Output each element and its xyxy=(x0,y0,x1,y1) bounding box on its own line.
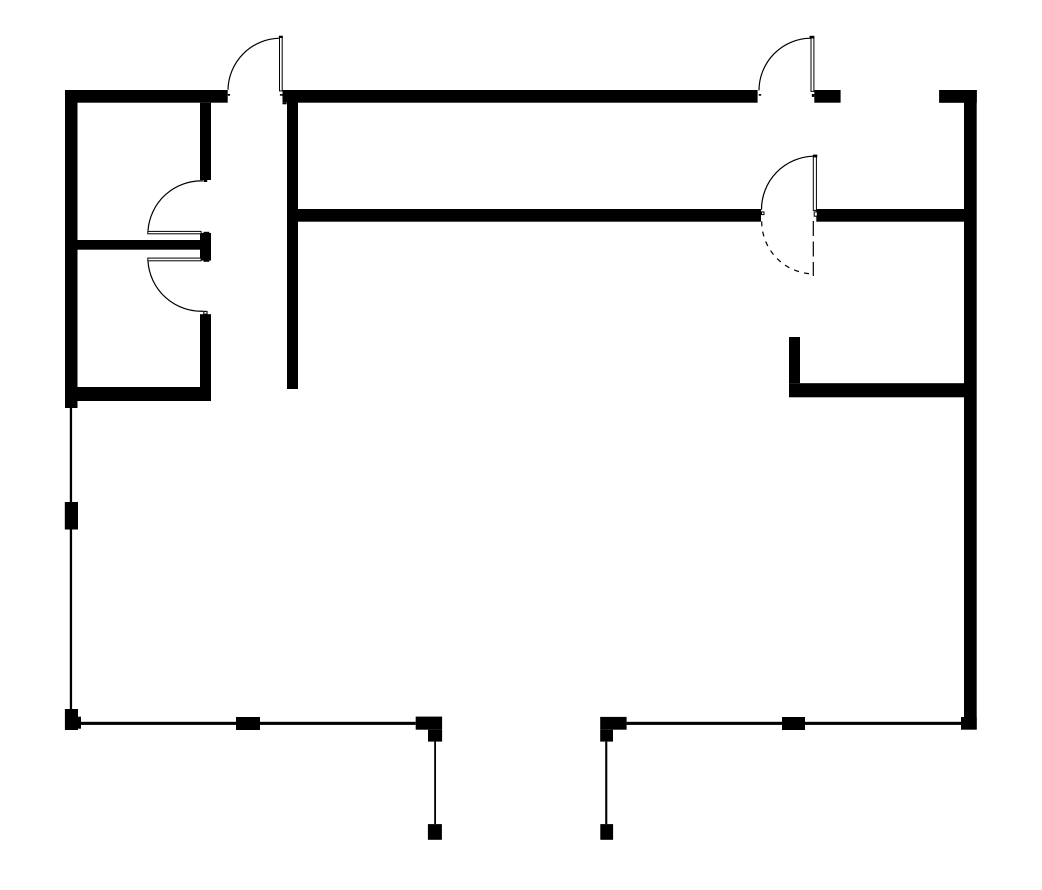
cap bump top xyxy=(204,232,210,233)
jamb tick below interior wall xyxy=(204,180,207,182)
door D2 hinge cap xyxy=(810,36,815,39)
thin wall descending right xyxy=(605,742,607,825)
column bottom mid-right xyxy=(782,717,805,730)
door D4 arc (lower left-block door) xyxy=(148,261,203,311)
wall top-left horizontal xyxy=(65,90,228,103)
thin wall bottom right segment xyxy=(627,722,961,725)
jamb step below wall right of D1 xyxy=(283,103,287,105)
wall interior vertical upper (left block) xyxy=(200,103,211,180)
door D5 solid arc xyxy=(761,156,813,210)
wall main vertical center xyxy=(287,90,298,389)
column bottom square left xyxy=(428,824,442,840)
door D5 jamb tick right xyxy=(814,212,817,216)
door D3 arc (upper left-block door) xyxy=(148,181,203,231)
wall middle horizontal (left block) xyxy=(65,240,200,250)
door D1 jamb tick right xyxy=(280,94,283,96)
door D5 dashed leaf xyxy=(812,221,814,276)
wall L stub vertical (right area) xyxy=(789,337,800,383)
door D4 stop tick xyxy=(204,311,207,314)
thin wall bottom left segment xyxy=(78,722,416,725)
wall top main horizontal xyxy=(283,90,758,103)
door D5 dashed arc xyxy=(762,221,814,274)
door D4 leaf xyxy=(148,258,201,261)
wall hinge cap (left block doors) xyxy=(200,233,211,261)
wall second horizontal right segment xyxy=(816,209,964,222)
door D1 arc xyxy=(228,38,279,90)
corner L left horizontal part xyxy=(416,717,442,730)
door D1 jamb tick left xyxy=(228,94,230,96)
corner L right horizontal part xyxy=(600,717,626,730)
column right wall foot xyxy=(961,717,977,730)
thin wall descending left xyxy=(434,742,436,825)
column bottom mid-left xyxy=(236,717,260,730)
column bottom square right xyxy=(600,824,613,840)
wall top-right corner horizontal xyxy=(939,90,977,103)
door D1 hinge cap xyxy=(279,36,283,38)
door D2 jamb tick right xyxy=(812,94,815,97)
door D1 leaf xyxy=(280,37,283,91)
thin wall left vertical xyxy=(70,408,72,709)
corner L right vertical part xyxy=(600,730,613,742)
wall top short segment xyxy=(814,90,840,103)
wall bottom of left block xyxy=(65,387,211,401)
cap bump bottom xyxy=(204,260,210,261)
wall right exterior vertical xyxy=(964,90,977,717)
wall second horizontal left segment xyxy=(287,209,761,222)
column left middle xyxy=(65,502,78,530)
wall interior vertical lower (left block) xyxy=(200,314,211,387)
wall left exterior vertical xyxy=(65,90,78,408)
door D5 hinge cap xyxy=(813,155,817,158)
column left bottom corner bump xyxy=(78,717,81,729)
column left bottom corner xyxy=(65,709,78,730)
door D5 leaf xyxy=(813,156,816,211)
door D2 leaf xyxy=(811,37,814,91)
door D2 jamb tick left xyxy=(759,94,762,96)
door D5 jamb tick left xyxy=(762,212,765,215)
wall L horizontal (right area) xyxy=(789,383,964,397)
corner L left vertical part xyxy=(428,730,442,742)
door D3 leaf xyxy=(148,231,201,233)
door D2 arc xyxy=(759,38,811,90)
